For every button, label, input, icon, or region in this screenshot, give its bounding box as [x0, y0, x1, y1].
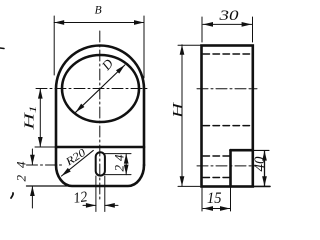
svg-text:12: 12: [72, 189, 89, 207]
svg-text:В: В: [95, 5, 102, 17]
svg-text:30: 30: [218, 8, 239, 24]
svg-text:15: 15: [207, 190, 222, 207]
svg-text:H: H: [170, 101, 186, 119]
svg-text:40: 40: [252, 156, 268, 172]
